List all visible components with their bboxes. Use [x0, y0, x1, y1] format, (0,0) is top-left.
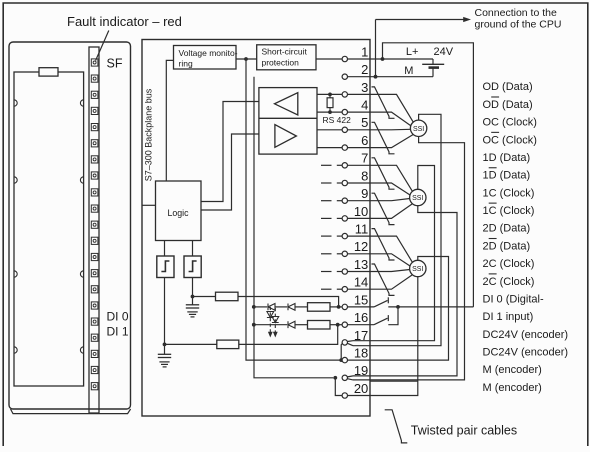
wire terminal 6 to SSI: [348, 135, 414, 148]
node DI switch common: [396, 305, 400, 309]
wire to CPU ground arrow: [375, 20, 377, 77]
svg-text:ring: ring: [179, 59, 193, 69]
dashed stub terminal 8: [321, 182, 332, 184]
svg-text:2C (Clock): 2C (Clock): [483, 258, 535, 270]
wire transceiver to terminal 5: [317, 129, 342, 131]
wire resistor R1 to terminal 15: [238, 297, 339, 307]
wire terminal 5 to SSI: [348, 128, 411, 131]
svg-text:RS 422: RS 422: [323, 115, 352, 125]
module inner panel: [14, 72, 84, 386]
panel screw bump pair 4: [14, 347, 17, 353]
wire schmitt B to node: [192, 278, 194, 297]
wire SSI3 bottom to terminal 20: [348, 277, 418, 396]
svg-text:DC24V (encoder): DC24V (encoder): [483, 347, 569, 359]
panel screw bump pair 2: [14, 177, 17, 183]
wire terminal 11 to SSI: [348, 236, 413, 262]
dashed stub terminal 11: [321, 235, 332, 237]
svg-text:protection: protection: [262, 58, 300, 68]
wire node to resistor R1: [193, 296, 216, 298]
svg-text:M (encoder): M (encoder): [483, 382, 542, 394]
terminal 9 contact circle: [342, 198, 347, 203]
wire switch DI1 to common: [388, 307, 398, 325]
svg-text:DI 0: DI 0: [107, 309, 129, 323]
svg-text:L+: L+: [406, 46, 419, 58]
diode D5 clamp: [272, 317, 279, 323]
svg-text:ground of the CPU: ground of the CPU: [475, 19, 562, 31]
dashed sense arrow B: [274, 308, 276, 333]
wire rail to diode chain 16: [254, 324, 287, 326]
svg-text:6: 6: [361, 133, 368, 148]
node input filter A: [191, 295, 195, 299]
logic box U1: [156, 181, 202, 241]
svg-text:5: 5: [361, 115, 368, 130]
svg-text:DI 0 (Digital-: DI 0 (Digital-: [483, 293, 544, 305]
wire terminal 1 to battery L+: [348, 58, 434, 60]
svg-text:8: 8: [361, 168, 368, 183]
resistor R3: [308, 303, 331, 312]
svg-text:Connection to the: Connection to the: [475, 7, 557, 19]
wire logic output B: [201, 134, 259, 210]
diode D4 clamp: [267, 312, 274, 318]
wire terminal 10 to SSI: [348, 204, 413, 219]
terminal 11 contact circle: [342, 233, 347, 238]
terminal 15 contact circle: [342, 304, 347, 309]
svg-text:1D (Data): 1D (Data): [483, 170, 531, 182]
svg-text:Twisted pair cables: Twisted pair cables: [411, 424, 517, 438]
svg-text:2: 2: [361, 62, 368, 77]
node rail chain 16: [252, 323, 256, 327]
wire L+ to DI supply rail: [383, 43, 474, 307]
SSI interface circle 2: [410, 189, 426, 205]
wire SSI1 bottom to terminal 19 pair b: [353, 137, 465, 380]
wire rail to diode chain 15: [254, 306, 267, 308]
ground below C2: [159, 361, 169, 363]
twist crossover 7/8: [372, 158, 395, 189]
svg-text:DC24V (encoder): DC24V (encoder): [483, 329, 569, 341]
svg-text:1C (Clock): 1C (Clock): [483, 205, 535, 217]
svg-text:M: M: [404, 65, 413, 77]
wire switch DI0 to supply rail: [388, 306, 473, 308]
svg-text:SSI: SSI: [413, 126, 424, 133]
wire terminal 2 to battery M: [348, 76, 434, 78]
LED squares top group: [91, 59, 98, 179]
terminal 2 contact circle: [342, 74, 347, 79]
svg-text:SSI: SSI: [412, 266, 423, 273]
svg-text:13: 13: [354, 257, 368, 272]
terminal 17 pair splice: [347, 340, 353, 343]
wire logic to schmitt trigger A: [164, 241, 166, 257]
terminating resistor R5: [327, 98, 333, 108]
driver triangle: [275, 125, 297, 148]
svg-text:DI 1: DI 1: [107, 325, 129, 339]
wire terminal 17 to rail: [341, 344, 342, 361]
wire D3 to resistor R4: [295, 324, 308, 326]
terminal 16 contact circle: [342, 322, 347, 327]
terminal 1 contact circle: [342, 56, 347, 61]
svg-text:DI 1 input): DI 1 input): [483, 311, 534, 323]
svg-text:Voltage monito-: Voltage monito-: [179, 48, 238, 58]
wire D2 to resistor R3: [295, 306, 308, 308]
wire transceiver to terminal 3: [317, 93, 342, 95]
svg-text:20: 20: [354, 381, 368, 396]
terminal 17 contact circle: [342, 340, 347, 345]
svg-text:3: 3: [361, 80, 368, 95]
terminal 6 contact circle: [342, 145, 347, 150]
svg-text:Fault indicator – red: Fault indicator – red: [67, 14, 182, 29]
capacitor C1: [186, 304, 199, 306]
svg-text:24V: 24V: [434, 46, 454, 58]
ground below C1: [187, 311, 197, 313]
diode D1: [268, 304, 275, 311]
dashed stub terminal 14: [321, 288, 332, 290]
wire resistor R3 to terminal 15: [330, 306, 342, 308]
svg-text:OD (Data): OD (Data): [483, 99, 533, 111]
svg-text:1C (Clock): 1C (Clock): [483, 187, 535, 199]
dashed stub terminal 9: [321, 200, 332, 202]
wire logic to schmitt trigger B: [192, 241, 194, 257]
wire D1 to D2: [275, 306, 287, 308]
wire terminal 16 out: [348, 324, 375, 326]
module electronics box: [142, 40, 370, 417]
panel screw bump pair 3: [14, 271, 17, 277]
wire terminal 4 to SSI: [348, 112, 411, 126]
svg-text:OC (Clock): OC (Clock): [483, 134, 537, 146]
terminal 7 contact circle: [342, 163, 347, 168]
twist crossover 9/10: [372, 193, 395, 224]
schmitt trigger A: [157, 256, 174, 278]
node R5 bottom: [328, 110, 332, 114]
wire voltage monitoring to logic: [166, 60, 173, 181]
wire terminal 8 to SSI: [348, 183, 411, 195]
module front-view outline: [9, 42, 131, 409]
terminal 13 contact circle: [342, 269, 347, 274]
short-circuit protection box: [257, 45, 316, 70]
dashed stub terminal 7: [321, 164, 332, 166]
panel top notch: [39, 68, 58, 76]
node input filter B: [163, 343, 167, 347]
svg-text:16: 16: [354, 310, 368, 325]
node M rail to terminal 19: [333, 376, 337, 380]
wire backplane bus to logic: [142, 204, 156, 206]
svg-text:15: 15: [354, 292, 368, 307]
module bottom base edge: [11, 409, 131, 414]
node rail chain 15: [252, 305, 256, 309]
terminal 18 contact circle: [342, 357, 347, 362]
wire SSI3 top to terminal 18: [348, 257, 449, 361]
wire terminal 20 stub: [370, 380, 418, 382]
battery 24V supply: [432, 59, 434, 64]
SSI interface circle 1: [410, 120, 426, 136]
node terminal 1 L+ branch: [381, 57, 385, 61]
node rail-17 junction: [339, 358, 343, 362]
wire SSI2 bottom to terminal 19 pair a: [353, 206, 457, 376]
wire node to resistor R2: [165, 343, 217, 345]
wire transceiver to terminal 6: [317, 147, 342, 149]
node DC24V tap: [244, 57, 248, 61]
wire SSI1 top to terminal 17 pair b: [353, 114, 441, 345]
node R5 top: [328, 93, 332, 97]
terminal 19 pair splice: [347, 376, 353, 377]
resistor R4: [308, 321, 331, 330]
wire terminal 7 to SSI: [348, 165, 413, 191]
svg-text:Logic: Logic: [167, 208, 189, 218]
svg-text:7: 7: [361, 151, 368, 166]
twisted pair cables bracket: [385, 410, 408, 443]
wire resistor R4 to terminal 16: [330, 324, 342, 326]
svg-text:OD (Data): OD (Data): [483, 81, 533, 93]
diode D2: [288, 304, 295, 311]
terminal 20 contact circle: [342, 393, 347, 398]
svg-text:2D (Data): 2D (Data): [483, 240, 531, 252]
fault indicator leader line: [96, 31, 109, 61]
receiver triangle: [275, 93, 298, 115]
switch DI 1: [374, 318, 388, 325]
terminal 5 contact circle: [342, 127, 347, 132]
svg-text:SF: SF: [107, 56, 123, 70]
terminal 8 contact circle: [342, 180, 347, 185]
twist crossover 3/4: [372, 87, 395, 118]
dashed stub terminal 10: [321, 217, 332, 219]
terminal 4 contact circle: [342, 109, 347, 114]
LED strip column: [89, 47, 99, 413]
terminal 10 contact circle: [342, 216, 347, 221]
wire schmitt A to node: [164, 278, 166, 345]
wire M rail from terminal 2 to terminal 19: [254, 77, 333, 378]
svg-text:2C (Clock): 2C (Clock): [483, 276, 535, 288]
svg-text:14: 14: [354, 275, 368, 290]
SSI interface circle 3: [410, 260, 426, 276]
svg-text:12: 12: [354, 239, 368, 254]
resistor R1: [216, 292, 239, 301]
wire terminal 12 to SSI: [348, 254, 411, 266]
LED squares bottom group: [91, 189, 98, 390]
svg-text:18: 18: [354, 346, 368, 361]
twist crossover 5/6: [372, 122, 395, 154]
svg-text:2D (Data): 2D (Data): [483, 223, 531, 235]
node terminal 15 input: [337, 305, 341, 309]
wire terminal 13 to SSI: [348, 270, 410, 272]
svg-text:1: 1: [361, 44, 368, 59]
wire short-circuit protection to terminal 1: [316, 58, 342, 60]
wire SSI2 top to terminal 17 pair a: [353, 166, 435, 341]
dashed sense arrow A: [269, 307, 271, 333]
wire M rail drop to terminal 20: [335, 378, 342, 396]
twist crossover 13/14: [372, 264, 395, 295]
svg-text:S7–300 Backplane bus: S7–300 Backplane bus: [144, 88, 154, 181]
svg-text:1D (Data): 1D (Data): [483, 152, 531, 164]
wire terminal 14 to SSI: [348, 275, 413, 290]
svg-text:9: 9: [361, 186, 368, 201]
terminal 19 contact circle: [342, 375, 347, 380]
wire voltage monitoring to short-circuit protection: [236, 58, 257, 60]
svg-text:OC (Clock): OC (Clock): [483, 117, 537, 129]
voltage monitoring box: [174, 46, 237, 70]
capacitor C2: [158, 353, 171, 355]
terminal 3 contact circle: [342, 92, 347, 97]
node terminal 2 CPU ground branch: [374, 75, 378, 79]
wire terminal 3 to SSI: [348, 94, 414, 122]
svg-text:SSI: SSI: [412, 195, 423, 202]
svg-text:4: 4: [361, 98, 368, 113]
switch DI 0: [374, 300, 388, 307]
RS 422 transceiver box: [259, 88, 317, 155]
wire DC24V rail to terminal 18: [246, 59, 342, 360]
svg-text:Short-circuit: Short-circuit: [262, 47, 308, 57]
wire terminal 15 out: [348, 306, 375, 308]
terminal 14 contact circle: [342, 287, 347, 292]
dashed stub terminal 12: [321, 253, 332, 255]
twist crossover 11/12: [372, 229, 395, 260]
svg-text:11: 11: [355, 222, 369, 237]
wire resistor R2 to terminal 16: [239, 325, 338, 345]
diode D3: [288, 321, 295, 328]
wire transceiver to terminal 4: [317, 111, 342, 113]
dashed stub terminal 13: [321, 271, 332, 273]
svg-text:M (encoder): M (encoder): [483, 364, 542, 376]
wire logic output A: [201, 102, 259, 202]
node terminal 16 input: [336, 323, 340, 327]
svg-text:10: 10: [354, 204, 368, 219]
terminal 12 contact circle: [342, 251, 347, 256]
panel screw bump pair 1: [14, 100, 17, 106]
schmitt trigger B: [184, 256, 201, 278]
wire terminal 9 to SSI: [348, 199, 410, 201]
resistor R2: [217, 340, 239, 349]
